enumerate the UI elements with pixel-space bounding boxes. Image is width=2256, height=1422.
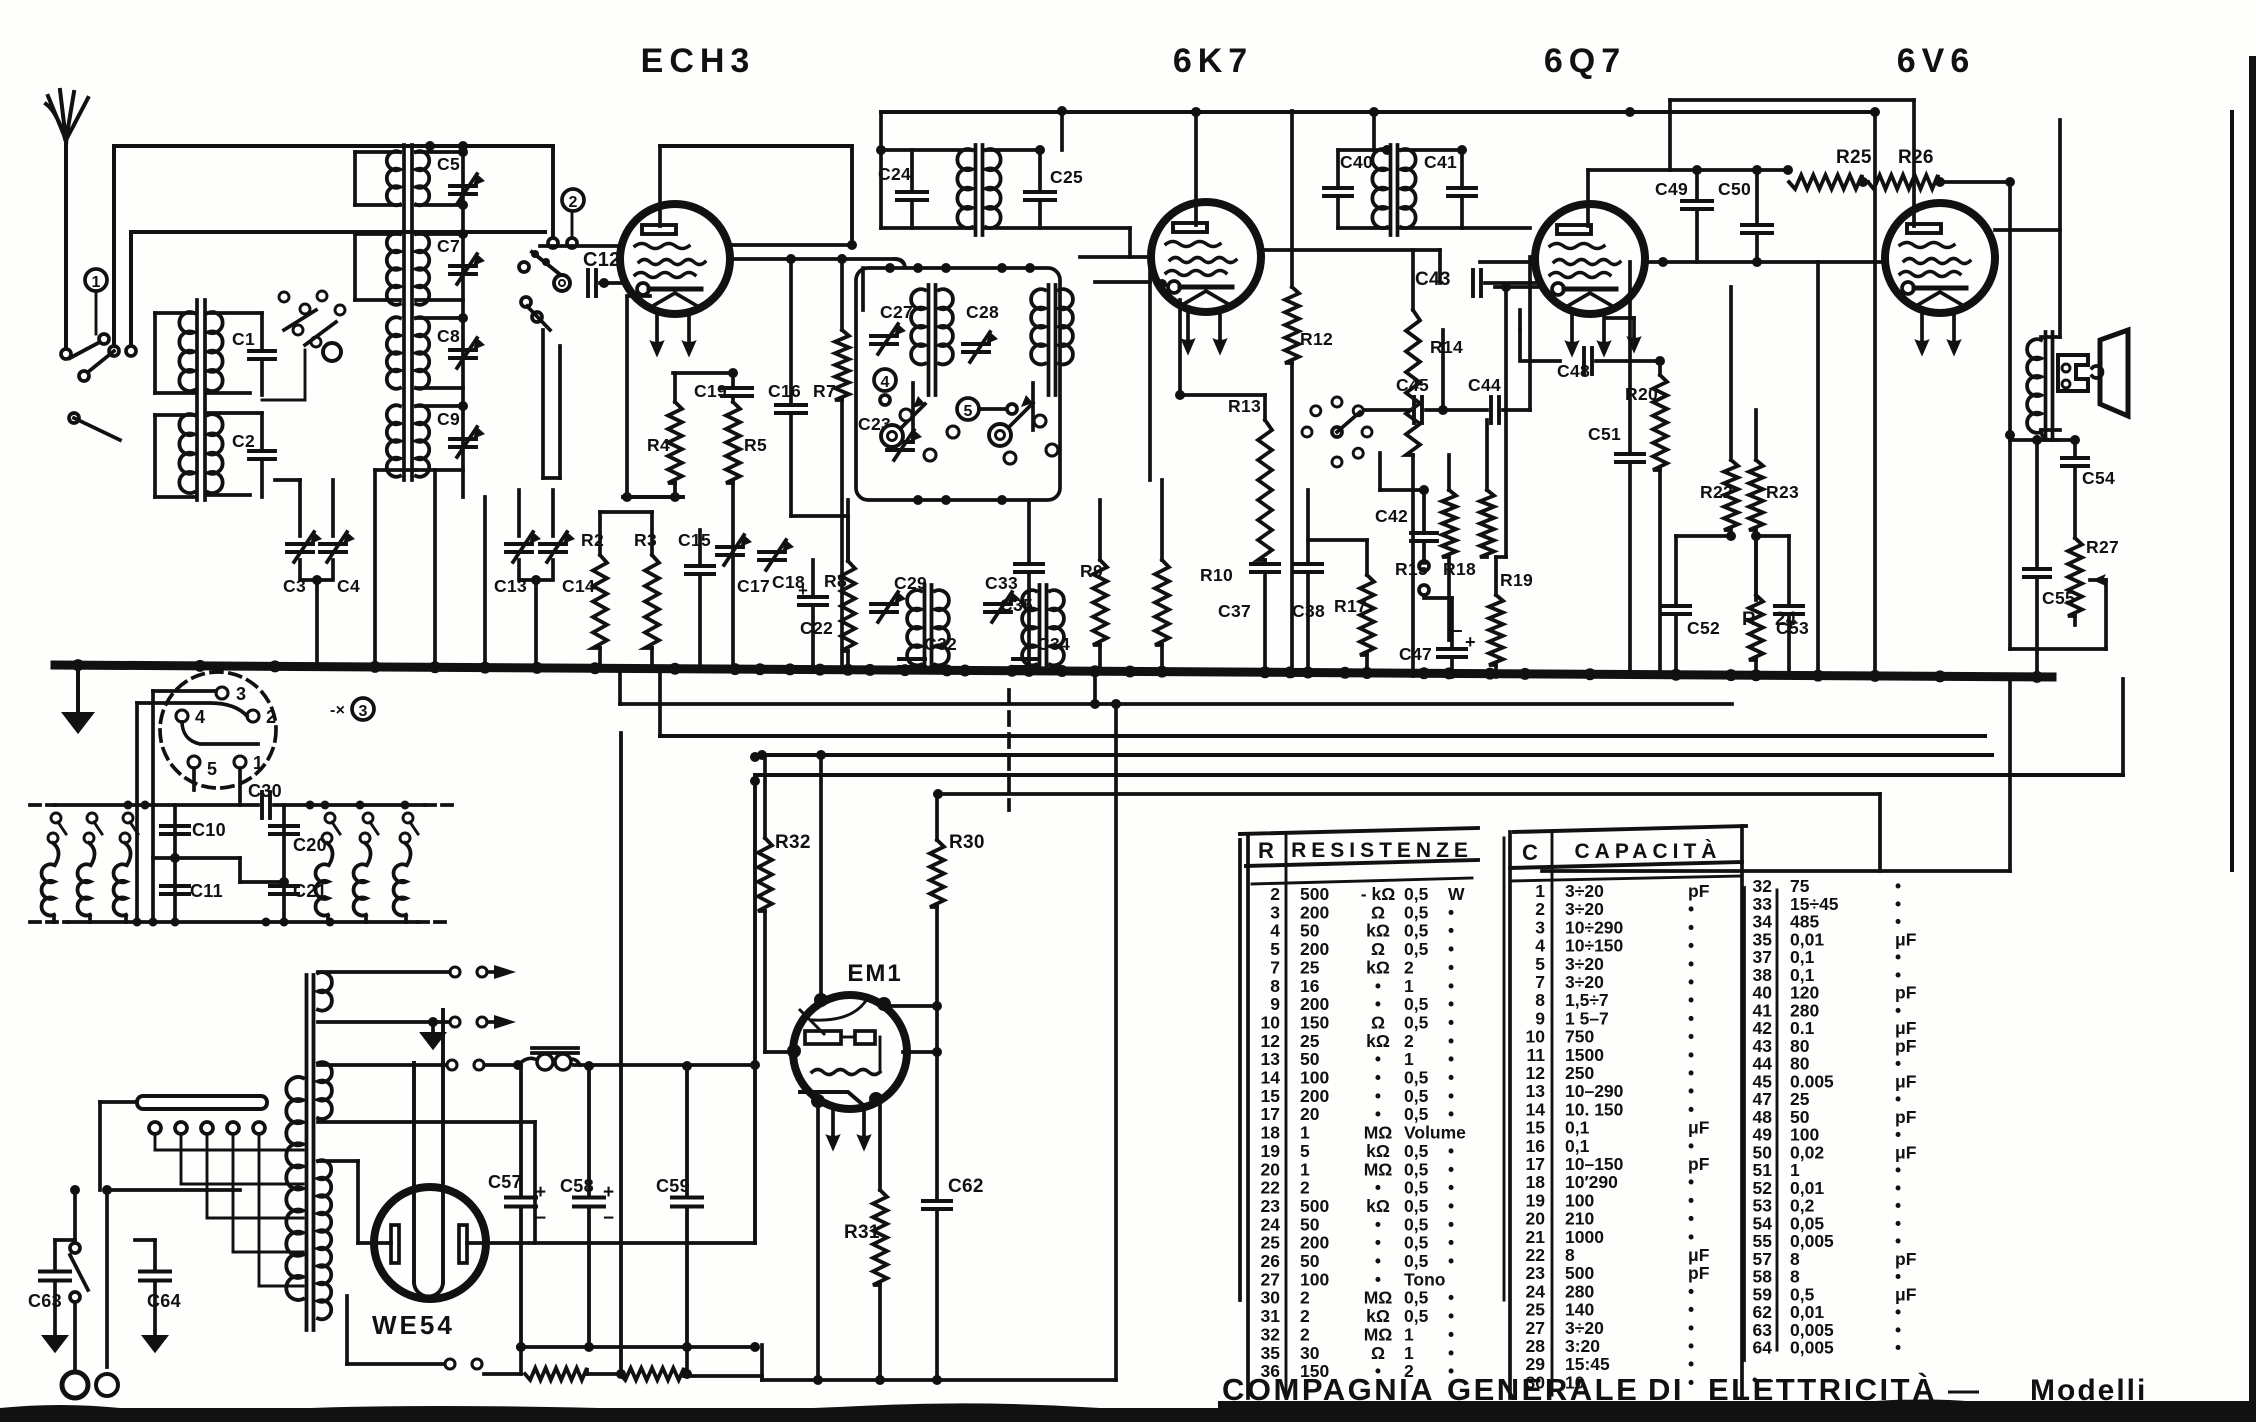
- svg-text:15: 15: [1526, 1118, 1546, 1138]
- svg-text:kΩ: kΩ: [1366, 1141, 1390, 1161]
- svg-text:C48: C48: [1557, 361, 1590, 381]
- svg-text:0,5: 0,5: [1404, 1214, 1429, 1234]
- svg-text:14: 14: [1526, 1099, 1546, 1119]
- svg-text:- kΩ: - kΩ: [1361, 884, 1395, 904]
- svg-text:C49: C49: [1655, 179, 1688, 199]
- svg-text:200: 200: [1300, 994, 1329, 1014]
- svg-text:•: •: [1448, 1159, 1454, 1179]
- svg-text:•: •: [1448, 902, 1454, 922]
- svg-text:•: •: [1375, 1068, 1381, 1088]
- svg-text:750: 750: [1565, 1027, 1594, 1047]
- svg-text:C47: C47: [1399, 644, 1432, 664]
- svg-text:18: 18: [1261, 1123, 1281, 1143]
- svg-text:C42: C42: [1375, 506, 1408, 526]
- svg-text:•: •: [1688, 1190, 1694, 1210]
- svg-text:1: 1: [1404, 1324, 1414, 1344]
- svg-text:MΩ: MΩ: [1364, 1288, 1393, 1308]
- svg-text:13: 13: [1261, 1049, 1281, 1069]
- svg-text:10. 150: 10. 150: [1565, 1099, 1624, 1119]
- svg-text:150: 150: [1300, 1012, 1329, 1032]
- svg-text:−: −: [603, 1208, 614, 1229]
- svg-text:2: 2: [1300, 1288, 1310, 1308]
- svg-text:11: 11: [1527, 1045, 1546, 1065]
- svg-text:4: 4: [1535, 936, 1545, 956]
- svg-text:•: •: [1688, 954, 1694, 974]
- svg-text:15: 15: [1261, 1086, 1281, 1106]
- svg-text:1: 1: [1300, 1123, 1310, 1143]
- svg-text:μF: μF: [1688, 1245, 1710, 1265]
- svg-text:10: 10: [1526, 1027, 1546, 1047]
- svg-text:1000: 1000: [1565, 1227, 1604, 1247]
- svg-text:R13: R13: [1228, 396, 1261, 416]
- svg-text:19: 19: [1261, 1141, 1281, 1161]
- svg-text:140: 140: [1565, 1300, 1594, 1320]
- svg-text:C44: C44: [1468, 375, 1501, 395]
- svg-text:27: 27: [1526, 1318, 1545, 1338]
- svg-text:kΩ: kΩ: [1366, 957, 1390, 977]
- svg-text:0,5: 0,5: [1404, 1086, 1429, 1106]
- svg-text:0,5: 0,5: [1404, 1141, 1429, 1161]
- svg-text:50: 50: [1300, 921, 1320, 941]
- svg-text:C51: C51: [1588, 424, 1621, 444]
- svg-text:3: 3: [1535, 917, 1545, 937]
- svg-text:3:20: 3:20: [1565, 1336, 1600, 1356]
- svg-text:•: •: [1688, 1081, 1694, 1101]
- svg-text:0,5: 0,5: [1404, 1288, 1429, 1308]
- svg-text:16: 16: [1300, 976, 1320, 996]
- svg-text:23: 23: [1261, 1196, 1281, 1216]
- svg-text:C40: C40: [1340, 152, 1373, 172]
- svg-text:1: 1: [1535, 881, 1545, 901]
- svg-text:5: 5: [1270, 939, 1280, 959]
- svg-text:200: 200: [1300, 939, 1329, 959]
- svg-text:C10: C10: [192, 820, 226, 840]
- svg-text:12: 12: [1526, 1063, 1546, 1083]
- svg-text:4: 4: [195, 707, 205, 727]
- svg-text:•: •: [1375, 994, 1381, 1014]
- svg-text:2: 2: [1300, 1324, 1310, 1344]
- svg-text:•: •: [1448, 1288, 1454, 1308]
- svg-text:18: 18: [1526, 1172, 1546, 1192]
- svg-text:100: 100: [1565, 1190, 1594, 1210]
- svg-text:0,5: 0,5: [1404, 1068, 1429, 1088]
- svg-text:8: 8: [1535, 990, 1545, 1010]
- svg-text:C34: C34: [1037, 634, 1070, 654]
- svg-text:1: 1: [1404, 1343, 1414, 1363]
- svg-text:Ω: Ω: [1371, 1343, 1385, 1363]
- svg-text:6V6: 6V6: [1897, 42, 1976, 80]
- svg-text:3: 3: [1270, 902, 1280, 922]
- svg-text:•: •: [1448, 1141, 1454, 1161]
- svg-text:1,5÷7: 1,5÷7: [1565, 990, 1609, 1010]
- svg-text:10: 10: [1261, 1012, 1281, 1032]
- svg-text:21: 21: [1526, 1227, 1546, 1247]
- svg-text:3: 3: [359, 703, 368, 720]
- svg-text:•: •: [1375, 1233, 1381, 1253]
- svg-text:•: •: [1448, 1086, 1454, 1106]
- svg-text:R26: R26: [1898, 147, 1934, 168]
- svg-text:C15: C15: [678, 530, 711, 550]
- svg-text:8: 8: [1565, 1245, 1575, 1265]
- svg-text:50: 50: [1300, 1214, 1320, 1234]
- svg-text:−: −: [535, 1208, 546, 1229]
- svg-text:280: 280: [1565, 1281, 1594, 1301]
- svg-text:17: 17: [1526, 1154, 1545, 1174]
- svg-text:14: 14: [1261, 1068, 1281, 1088]
- svg-text:C4: C4: [337, 576, 360, 596]
- svg-text:3÷20: 3÷20: [1565, 972, 1604, 992]
- svg-text:Volume: Volume: [1404, 1123, 1466, 1143]
- svg-text:EM1: EM1: [847, 960, 902, 987]
- svg-text:7: 7: [1270, 957, 1280, 977]
- svg-text:•: •: [1448, 939, 1454, 959]
- svg-text:•: •: [1688, 936, 1694, 956]
- svg-text:•: •: [1448, 1178, 1454, 1198]
- svg-text:•: •: [1375, 1269, 1381, 1289]
- svg-text:25: 25: [1300, 1031, 1320, 1051]
- svg-text:C41: C41: [1424, 152, 1457, 172]
- svg-text:•: •: [1688, 1318, 1694, 1338]
- svg-text:•: •: [1688, 1227, 1694, 1247]
- svg-text:•: •: [1688, 1027, 1694, 1047]
- svg-text:R5: R5: [744, 435, 767, 455]
- svg-text:kΩ: kΩ: [1366, 921, 1390, 941]
- svg-text:0,5: 0,5: [1404, 902, 1429, 922]
- svg-text:•: •: [1448, 1104, 1454, 1124]
- svg-text:30: 30: [1300, 1343, 1320, 1363]
- svg-text:pF: pF: [1688, 881, 1710, 901]
- svg-text:6K7: 6K7: [1173, 42, 1253, 80]
- svg-text:50: 50: [1300, 1049, 1320, 1069]
- svg-text:5: 5: [1535, 954, 1545, 974]
- svg-text:C2: C2: [232, 431, 255, 451]
- svg-text:-×: -×: [330, 702, 345, 719]
- svg-text:2: 2: [1404, 957, 1414, 977]
- svg-text:R7: R7: [813, 381, 836, 401]
- svg-text:0,005: 0,005: [1790, 1338, 1834, 1358]
- svg-text:C37: C37: [1218, 601, 1251, 621]
- svg-text:22: 22: [1261, 1178, 1281, 1198]
- svg-text:•: •: [1375, 1251, 1381, 1271]
- svg-text:kΩ: kΩ: [1366, 1196, 1390, 1216]
- svg-text:MΩ: MΩ: [1364, 1123, 1393, 1143]
- svg-text:3÷20: 3÷20: [1565, 881, 1604, 901]
- svg-text:0,5: 0,5: [1404, 884, 1429, 904]
- svg-text:•: •: [1688, 1336, 1694, 1356]
- svg-text:MΩ: MΩ: [1364, 1324, 1393, 1344]
- svg-text:•: •: [1448, 1233, 1454, 1253]
- svg-text:•: •: [1688, 1172, 1694, 1192]
- svg-text:20: 20: [1526, 1209, 1546, 1229]
- svg-text:kΩ: kΩ: [1366, 1031, 1390, 1051]
- svg-text:R12: R12: [1300, 329, 1333, 349]
- svg-text:3÷20: 3÷20: [1565, 954, 1604, 974]
- svg-text:200: 200: [1300, 902, 1329, 922]
- svg-text:1: 1: [1404, 976, 1414, 996]
- svg-text:500: 500: [1565, 1263, 1594, 1283]
- svg-text:3÷20: 3÷20: [1565, 1318, 1604, 1338]
- svg-text:•: •: [1375, 1049, 1381, 1069]
- svg-text:24: 24: [1526, 1281, 1546, 1301]
- svg-text:•: •: [1448, 921, 1454, 941]
- svg-text:50: 50: [1300, 1251, 1320, 1271]
- svg-text:•: •: [1448, 1306, 1454, 1326]
- svg-text:•: •: [1688, 1099, 1694, 1119]
- svg-text:C25: C25: [1050, 167, 1083, 187]
- svg-text:C62: C62: [948, 1176, 984, 1197]
- svg-text:35: 35: [1261, 1343, 1281, 1363]
- svg-text:•: •: [1448, 1343, 1454, 1363]
- svg-text:•: •: [1688, 1008, 1694, 1028]
- svg-text:R14: R14: [1430, 337, 1463, 357]
- svg-text:Ω: Ω: [1371, 902, 1385, 922]
- svg-text:25: 25: [1300, 957, 1320, 977]
- svg-text:0,1: 0,1: [1565, 1136, 1590, 1156]
- svg-text:10–150: 10–150: [1565, 1154, 1624, 1174]
- svg-text:100: 100: [1300, 1269, 1329, 1289]
- svg-text:9: 9: [1270, 994, 1280, 1014]
- svg-text:C27: C27: [880, 302, 913, 322]
- svg-text:500: 500: [1300, 884, 1329, 904]
- svg-text:100: 100: [1300, 1068, 1329, 1088]
- svg-text:•: •: [1688, 899, 1694, 919]
- svg-text:2: 2: [266, 707, 276, 727]
- svg-text:•: •: [1448, 1324, 1454, 1344]
- svg-text:2: 2: [1300, 1178, 1310, 1198]
- svg-text:C21: C21: [293, 881, 327, 901]
- svg-text:0,5: 0,5: [1404, 1012, 1429, 1032]
- svg-text:•: •: [1375, 1086, 1381, 1106]
- svg-text:2: 2: [1535, 899, 1545, 919]
- svg-text:13: 13: [1526, 1081, 1546, 1101]
- svg-text:210: 210: [1565, 1209, 1594, 1229]
- svg-text:C28: C28: [966, 302, 999, 322]
- svg-text:C18: C18: [772, 572, 805, 592]
- svg-text:•: •: [1688, 990, 1694, 1010]
- svg-text:•: •: [1448, 1068, 1454, 1088]
- svg-text:26: 26: [1261, 1251, 1281, 1271]
- svg-text:•: •: [1448, 1049, 1454, 1069]
- svg-text:1: 1: [92, 274, 101, 291]
- svg-text:•: •: [1448, 1214, 1454, 1234]
- svg-text:R10: R10: [1200, 565, 1233, 585]
- svg-text:•: •: [1448, 994, 1454, 1014]
- svg-text:R15: R15: [1395, 559, 1428, 579]
- svg-text:1500: 1500: [1565, 1045, 1604, 1065]
- svg-text:C: C: [1522, 840, 1538, 865]
- svg-text:23: 23: [1526, 1263, 1546, 1283]
- svg-text:C22: C22: [800, 618, 833, 638]
- svg-text:R: R: [1258, 838, 1274, 863]
- svg-text:•: •: [1688, 1372, 1694, 1392]
- svg-text:Tono: Tono: [1404, 1269, 1445, 1289]
- svg-text:C29: C29: [894, 573, 927, 593]
- svg-text:1: 1: [1300, 1159, 1310, 1179]
- svg-text:•: •: [1375, 1104, 1381, 1124]
- svg-text:C32: C32: [924, 634, 957, 654]
- svg-text:5: 5: [207, 759, 217, 779]
- svg-text:•: •: [1688, 1281, 1694, 1301]
- svg-text:0,5: 0,5: [1404, 939, 1429, 959]
- svg-text:27: 27: [1261, 1269, 1280, 1289]
- svg-text:500: 500: [1300, 1196, 1329, 1216]
- svg-text:0,5: 0,5: [1404, 1251, 1429, 1271]
- svg-text:17: 17: [1261, 1104, 1280, 1124]
- svg-text:2: 2: [1300, 1306, 1310, 1326]
- svg-text:C52: C52: [1687, 618, 1720, 638]
- svg-text:4: 4: [881, 374, 890, 391]
- svg-text:C17: C17: [737, 576, 770, 596]
- svg-text:30: 30: [1261, 1288, 1281, 1308]
- svg-text:C30: C30: [248, 781, 282, 801]
- svg-text:C59: C59: [656, 1176, 690, 1196]
- svg-text:C12: C12: [583, 249, 621, 271]
- svg-text:Ω: Ω: [1371, 939, 1385, 959]
- svg-text:12: 12: [1261, 1031, 1281, 1051]
- svg-text:0,5: 0,5: [1404, 1104, 1429, 1124]
- svg-text:0,1: 0,1: [1565, 1118, 1590, 1138]
- svg-text:28: 28: [1526, 1336, 1546, 1356]
- svg-text:200: 200: [1300, 1086, 1329, 1106]
- svg-text:3÷20: 3÷20: [1565, 899, 1604, 919]
- svg-text:C50: C50: [1718, 179, 1751, 199]
- svg-text:•: •: [1895, 1338, 1901, 1358]
- svg-text:32: 32: [1261, 1324, 1281, 1344]
- svg-text:C20: C20: [293, 835, 327, 855]
- svg-text:•: •: [1688, 972, 1694, 992]
- svg-text:•: •: [1688, 1209, 1694, 1229]
- svg-text:31: 31: [1261, 1306, 1281, 1326]
- svg-text:•: •: [1375, 1214, 1381, 1234]
- svg-text:64: 64: [1753, 1338, 1773, 1358]
- svg-text:C24: C24: [878, 164, 911, 184]
- svg-text:C64: C64: [147, 1291, 181, 1311]
- svg-text:7: 7: [1535, 972, 1545, 992]
- svg-text:25: 25: [1261, 1233, 1281, 1253]
- svg-text:16: 16: [1526, 1136, 1546, 1156]
- svg-text:0,5: 0,5: [1404, 1196, 1429, 1216]
- svg-text:1 5–7: 1 5–7: [1565, 1008, 1609, 1028]
- svg-text:2: 2: [1270, 884, 1280, 904]
- svg-text:•: •: [1375, 1178, 1381, 1198]
- svg-text:5: 5: [1300, 1141, 1310, 1161]
- svg-text:Ω: Ω: [1371, 1012, 1385, 1032]
- svg-text:•: •: [1688, 1063, 1694, 1083]
- svg-text:R4: R4: [647, 435, 670, 455]
- svg-text:5: 5: [964, 403, 973, 420]
- svg-text:•: •: [1375, 976, 1381, 996]
- svg-text:0,5: 0,5: [1404, 994, 1429, 1014]
- svg-text:C53: C53: [1776, 618, 1809, 638]
- svg-text:+: +: [603, 1182, 614, 1203]
- svg-text:C8: C8: [437, 326, 460, 346]
- svg-text:•: •: [1688, 1045, 1694, 1065]
- svg-text:•: •: [1688, 1300, 1694, 1320]
- svg-text:•: •: [1448, 1196, 1454, 1216]
- svg-text:19: 19: [1526, 1190, 1546, 1210]
- svg-text:0,5: 0,5: [1404, 1159, 1429, 1179]
- svg-text:CAPACITÀ: CAPACITÀ: [1575, 840, 1722, 863]
- svg-text:•: •: [1448, 976, 1454, 996]
- svg-text:R32: R32: [775, 832, 811, 853]
- svg-text:10÷290: 10÷290: [1565, 917, 1624, 937]
- svg-text:•: •: [1688, 917, 1694, 937]
- svg-text:9: 9: [1535, 1008, 1545, 1028]
- svg-text:W: W: [1448, 884, 1465, 904]
- svg-text:20: 20: [1300, 1104, 1320, 1124]
- svg-text:200: 200: [1300, 1233, 1329, 1253]
- svg-text:pF: pF: [1688, 1263, 1710, 1283]
- svg-text:0,5: 0,5: [1404, 1306, 1429, 1326]
- svg-text:10′290: 10′290: [1565, 1172, 1618, 1192]
- svg-text:C54: C54: [2082, 468, 2115, 488]
- svg-text:0,5: 0,5: [1404, 1178, 1429, 1198]
- svg-text:2: 2: [1404, 1031, 1414, 1051]
- svg-text:25: 25: [1526, 1300, 1546, 1320]
- svg-text:1: 1: [253, 753, 263, 773]
- svg-text:MΩ: MΩ: [1364, 1159, 1393, 1179]
- svg-text:R30: R30: [949, 832, 985, 853]
- svg-text:C11: C11: [190, 881, 223, 901]
- svg-text:C5: C5: [437, 154, 460, 174]
- svg-text:μF: μF: [1688, 1118, 1710, 1138]
- svg-text:•: •: [1448, 1031, 1454, 1051]
- svg-text:ECH3: ECH3: [641, 42, 756, 80]
- svg-text:6Q7: 6Q7: [1544, 42, 1626, 80]
- svg-text:•: •: [1448, 957, 1454, 977]
- svg-text:WE54: WE54: [372, 1310, 455, 1340]
- svg-text:R27: R27: [2086, 537, 2119, 557]
- svg-text:•: •: [1448, 1012, 1454, 1032]
- svg-text:pF: pF: [1688, 1154, 1710, 1174]
- svg-text:C7: C7: [437, 236, 460, 256]
- svg-text:8: 8: [1270, 976, 1280, 996]
- svg-text:•: •: [1688, 1354, 1694, 1374]
- svg-text:C1: C1: [232, 329, 255, 349]
- svg-text:+: +: [1465, 632, 1476, 652]
- svg-text:C57: C57: [488, 1172, 522, 1192]
- svg-text:250: 250: [1565, 1063, 1594, 1083]
- svg-text:3: 3: [236, 684, 246, 704]
- svg-text:10–290: 10–290: [1565, 1081, 1624, 1101]
- svg-text:C9: C9: [437, 409, 460, 429]
- svg-text:R23: R23: [1766, 482, 1799, 502]
- svg-text:•: •: [1448, 1251, 1454, 1271]
- svg-text:20: 20: [1261, 1159, 1281, 1179]
- svg-text:24: 24: [1261, 1214, 1281, 1234]
- svg-text:2: 2: [569, 194, 578, 211]
- svg-text:C16: C16: [768, 381, 801, 401]
- svg-text:C33: C33: [985, 573, 1018, 593]
- svg-text:1: 1: [1404, 1049, 1414, 1069]
- svg-text:+: +: [535, 1182, 546, 1203]
- svg-text:kΩ: kΩ: [1366, 1306, 1390, 1326]
- svg-text:C43: C43: [1415, 269, 1451, 290]
- svg-text:0,5: 0,5: [1404, 921, 1429, 941]
- svg-text:R25: R25: [1836, 147, 1872, 168]
- svg-text:4: 4: [1270, 921, 1280, 941]
- svg-text:RESISTENZE: RESISTENZE: [1291, 839, 1473, 862]
- svg-text:•: •: [1688, 1136, 1694, 1156]
- svg-text:10÷150: 10÷150: [1565, 936, 1624, 956]
- svg-text:R19: R19: [1500, 570, 1533, 590]
- svg-text:22: 22: [1526, 1245, 1546, 1265]
- svg-text:0,5: 0,5: [1404, 1233, 1429, 1253]
- svg-text:C55: C55: [2042, 588, 2075, 608]
